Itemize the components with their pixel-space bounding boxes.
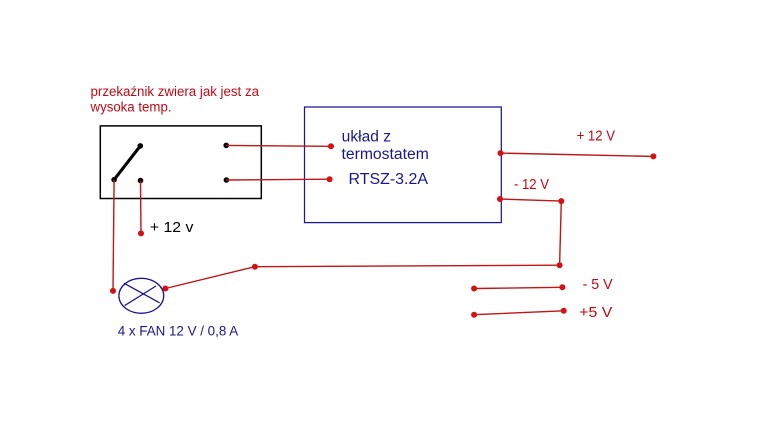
relay contact pin right-bottom: [224, 177, 230, 183]
svg-text:4 x FAN 12 V / 0,8 A: 4 x FAN 12 V / 0,8 A: [118, 323, 239, 339]
wire bottom bus: [255, 265, 560, 267]
wire relay middle pin +12v stub: [140, 181, 143, 234]
node: module input 1: [328, 143, 334, 149]
wire fan to bus: [165, 267, 255, 289]
relay contact pin middle: [138, 178, 144, 184]
fan M1 body: [119, 278, 164, 313]
node: +5V right: [561, 308, 567, 314]
wire relay common down to fan: [113, 180, 114, 291]
wire relay right-top to module input: [226, 144, 331, 147]
svg-text:+ 12 v: + 12 v: [150, 219, 194, 236]
node: +5V left: [471, 312, 477, 318]
wire -12V output horizontal: [500, 199, 561, 201]
wire relay right-bottom to module input 2: [226, 178, 329, 181]
relay contact pin common (pivot): [111, 177, 117, 183]
svg-text:+ 12 V: + 12 V: [577, 128, 616, 144]
svg-text:RTSZ-3.2A: RTSZ-3.2A: [349, 171, 429, 188]
node: module input 2: [327, 176, 333, 182]
node: module -12V output: [497, 196, 503, 202]
wire -5V rail: [474, 287, 562, 288]
relay contact pin top-left: [138, 143, 144, 149]
wire -12V vertical drop: [560, 201, 562, 265]
node: fan right terminal: [162, 286, 168, 292]
svg-text:układ z: układ z: [342, 128, 391, 145]
wire +5V rail: [474, 311, 564, 315]
svg-text:przekaźnik zwiera jak jest za: przekaźnik zwiera jak jest za: [91, 84, 260, 99]
svg-text:wysoka temp.: wysoka temp.: [90, 100, 172, 115]
node: bottom bus junction left: [252, 264, 258, 270]
relay contact pin right-top: [223, 143, 229, 149]
relay K1 body: [100, 126, 261, 199]
fan blade cross stroke 1: [124, 283, 160, 303]
wire +12V output: [501, 153, 654, 156]
node: -12V corner: [558, 198, 564, 204]
svg-text:+5 V: +5 V: [579, 304, 612, 321]
node: -5V left: [471, 286, 477, 292]
node: module +12V output: [498, 150, 504, 156]
fan blade cross stroke 2: [125, 286, 156, 306]
svg-text:- 12 V: - 12 V: [514, 177, 549, 193]
node: +12v stub end: [138, 230, 144, 236]
node: +12V wire end: [650, 153, 656, 159]
node: -5V right: [559, 284, 565, 290]
node: fan left terminal: [110, 288, 116, 294]
node: bottom bus junction right: [557, 262, 563, 268]
svg-text:- 5 V: - 5 V: [583, 276, 613, 293]
relay switch arm: [114, 146, 140, 180]
thermostat module U1 box: [305, 107, 502, 223]
svg-text:termostatem: termostatem: [342, 146, 429, 163]
